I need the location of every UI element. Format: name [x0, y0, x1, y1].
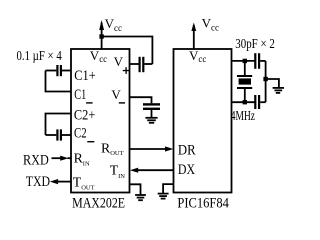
IC U1 MAX202E box — [71, 49, 130, 193]
wire V- pin to cap — [130, 97, 152, 103]
node junction OSC1 — [243, 59, 247, 63]
svg-text:30pF × 2: 30pF × 2 — [235, 37, 274, 52]
node junction right bus — [263, 77, 267, 81]
wire C2+ to bend — [46, 114, 72, 136]
wire Rout to DR with arrow — [130, 146, 174, 151]
svg-text:RXD: RXD — [23, 153, 49, 169]
capacitor C3 (V+ pump cap) — [130, 57, 153, 72]
wire crystal right bus — [265, 61, 267, 102]
svg-text:PIC16F84: PIC16F84 — [177, 196, 229, 212]
IC U2 PIC16F84 box — [174, 49, 232, 193]
node junction on Vcc stem — [99, 34, 103, 38]
wire OSC1 from PIC — [232, 60, 255, 62]
crystal X1 4MHz — [237, 75, 252, 89]
capacitor C6 (30pF bottom) — [254, 95, 265, 109]
wire crystal bottom lead — [244, 89, 246, 102]
capacitor C2 (between C2+ and C2-) — [46, 129, 72, 140]
power VCC net (MAX side) arrow — [99, 20, 104, 49]
power VCC net (PIC side) arrow — [191, 23, 196, 50]
pin label C2- — [74, 125, 94, 142]
svg-text:TXD: TXD — [26, 174, 50, 190]
ground (MAX bottom) — [135, 195, 146, 200]
pin label V+ — [114, 54, 130, 74]
pin label C1- — [74, 87, 92, 104]
node junction OSC2 — [243, 100, 247, 104]
svg-text:C2+: C2+ — [74, 108, 95, 124]
wire DX to Tin with arrow — [130, 168, 174, 173]
wire Vcc horizontal to V+ cap — [102, 37, 153, 65]
svg-text:0.1 µF × 4: 0.1 µF × 4 — [17, 49, 62, 64]
wire crystal top lead — [244, 61, 246, 75]
svg-text:DX: DX — [178, 162, 195, 178]
svg-text:V: V — [114, 54, 124, 69]
capacitor C4 (V- cap, horizontal plates) — [143, 103, 160, 110]
svg-text:C1+: C1+ — [74, 68, 95, 84]
wire C1- return — [46, 71, 72, 92]
ground (PIC bottom) — [158, 194, 169, 199]
pin label V- — [111, 87, 125, 104]
svg-text:V: V — [111, 87, 121, 102]
wire OSC2 from PIC — [232, 101, 255, 103]
svg-text:4MHz: 4MHz — [231, 109, 255, 124]
wire Tout to TXD with arrow — [50, 179, 71, 184]
capacitor C1 (between C1+ and C1-) — [46, 65, 72, 76]
svg-text:DR: DR — [178, 143, 196, 159]
ground (crystal) — [273, 88, 284, 93]
svg-text:MAX202E: MAX202E — [72, 196, 125, 212]
svg-text:C2: C2 — [74, 125, 87, 141]
ground (below V- cap) — [145, 110, 157, 123]
wire RXD to Rin with arrow — [52, 156, 72, 161]
wire to crystal ground — [266, 79, 279, 88]
wire PIC ground stub — [163, 184, 173, 193]
svg-text:C1: C1 — [74, 87, 86, 103]
capacitor C5 (30pF top) — [254, 53, 265, 69]
wire MAX ground stub — [130, 184, 141, 195]
